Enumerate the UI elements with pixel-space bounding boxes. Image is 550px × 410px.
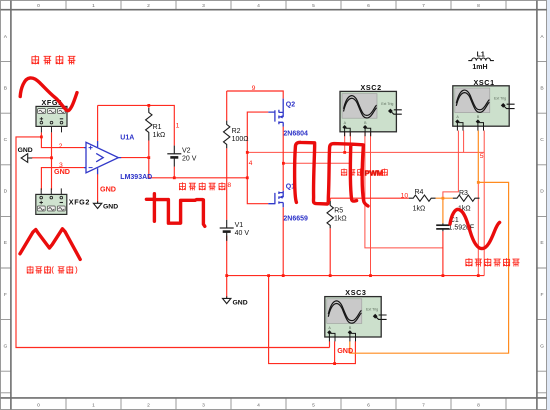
svg-text:2: 2 [147,3,150,9]
svg-text:10: 10 [401,193,409,200]
svg-text:0: 0 [37,3,40,9]
wire XSC1 A+ probe down to R4/R3/C1 node [443,131,459,199]
wire comparator V- pin down to ground [97,174,99,202]
svg-text:R5: R5 [334,208,343,215]
wire between Q2 source and Q1 drain (output node) [282,127,284,191]
wire orange: filtered output loop to XSC3 B+ [350,182,509,353]
resistor R4 [409,189,436,213]
svg-text:PWM: PWM [365,169,384,178]
svg-text:D: D [4,189,8,195]
svg-text:Q2: Q2 [286,102,295,109]
resistor R1 [146,108,166,158]
svg-text:R2: R2 [232,128,241,135]
transistor Q2 2N6804 (P-MOSFET) [268,99,308,138]
function generator XFG1 [36,98,67,132]
svg-text:1kΩ: 1kΩ [334,216,347,223]
wire net 3: XFG2 + output to comparator inverting input [41,168,84,190]
svg-text:9: 9 [252,85,256,92]
svg-text:LM393AD: LM393AD [120,174,152,181]
svg-text:4: 4 [249,160,253,167]
oscilloscope XSC3 [325,288,387,341]
resistor R2 [224,121,249,149]
svg-text:G: G [540,343,544,349]
svg-text:GND: GND [18,147,33,154]
inductor L1 1mH [468,52,494,72]
transistor Q1 2N6659 (N-MOSFET) [268,184,308,223]
svg-text:2: 2 [147,403,150,409]
wire comparator V+ pin up to net 1 rail [97,105,99,141]
svg-text:6: 6 [367,3,370,9]
wire R5 bottom down to ground rail [329,228,331,275]
junction common/GND [50,156,53,159]
scribble: triangle carrier wave [20,229,80,260]
junction Q1 source on rail [282,274,285,277]
wire XSC2 B+ probe down and right to C1 leg [365,132,443,248]
svg-text:XSC3: XSC3 [345,288,366,297]
junction output node / XSC2 A- line [282,162,285,165]
svg-text:R1: R1 [153,124,162,131]
function generator XFG2 (flipped) [36,188,90,214]
wire filter output node down to ground rail [477,182,479,275]
junction V2- on net 8 [173,176,176,179]
junction XSC3 A- on ground branch [333,362,336,365]
annotation: sound waveform text [31,55,75,64]
svg-text:L1: L1 [477,52,485,59]
svg-text:F: F [4,292,7,298]
wire gate node to XSC1/B- horizontal run [247,151,484,153]
wire XSC1 A- probe down to gate line [463,131,465,153]
junction XSC2 B- on rail [369,274,372,277]
ground below comparator [93,201,118,210]
svg-text:Ext Trig: Ext Trig [381,102,393,106]
wire XSC2 A- probe down to output-node line [349,132,351,164]
svg-text:GND: GND [233,300,248,307]
on-page connector GND (arrow) [18,147,33,162]
wire ground rail [227,275,485,277]
wire V1 - down to ground rail and GND [226,236,228,298]
svg-text:40 V: 40 V [235,230,250,237]
svg-text:1kΩ: 1kΩ [153,132,166,139]
svg-text:GND: GND [54,167,70,176]
wire common: XFG1 common to XFG2 common [51,132,53,189]
svg-text:3: 3 [202,403,205,409]
wire R1 top stub [148,105,150,108]
capacitor C1 1.592uF [436,217,474,232]
wire XSC2 B- probe down to ground rail [370,132,372,276]
junction comparator output / R1 [147,156,150,159]
wire net 9: R2 top across to Q2 drain [227,91,284,99]
wire GND connector tail to common [32,157,52,159]
wire R2 bottom down to V1 + (crosses net 8) [226,148,228,220]
battery V1 40V [220,220,250,241]
junction net8 / gate bus [246,176,249,179]
svg-text:100Ω: 100Ω [232,136,249,143]
svg-text:20 V: 20 V [182,156,197,163]
junction R5 bottom on rail [329,274,332,277]
svg-text:B: B [4,85,7,91]
junction XSC2 A+ on gate line [343,151,346,154]
op-amp U1A LM393AD [84,135,152,182]
wire orange: XSC1 B+ probe down [477,131,479,183]
wire R2 top to net 9 corner [226,91,228,121]
svg-text:Ext Trig: Ext Trig [494,97,506,101]
svg-text:XSC1: XSC1 [474,78,495,87]
svg-text:XFG2: XFG2 [69,198,90,207]
svg-text:5: 5 [480,153,484,160]
junction orange R4/R3/C1 node [442,197,445,200]
svg-text:7: 7 [422,3,425,9]
svg-text:GND: GND [337,346,353,355]
svg-text:V2: V2 [182,148,191,155]
svg-text:1: 1 [176,123,180,130]
svg-text:XSC2: XSC2 [361,83,382,92]
svg-text:6: 6 [367,403,370,409]
wire output node to XSC2 A- horizontal run [283,162,350,164]
resistor R5 [327,201,347,228]
annotation: modulated signal text [179,182,225,190]
svg-text:R3: R3 [459,190,468,197]
junction XSC3 branch on rail [267,274,270,277]
annotation: triangle carrier wave text [27,266,77,274]
svg-text:5: 5 [312,3,315,9]
svg-text:R4: R4 [415,189,424,196]
wire XSC3 A- stub down to ground branch [334,341,336,363]
svg-text:8: 8 [227,182,231,189]
svg-text:D: D [540,189,544,195]
svg-text:4: 4 [257,403,260,409]
svg-text:2N6804: 2N6804 [283,131,308,138]
svg-text:0: 0 [37,403,40,409]
svg-text:1: 1 [92,403,95,409]
wire orange: junction down to C1 top [442,198,444,223]
junction C1 on rail [442,274,445,277]
battery V2 20V [167,146,196,167]
wire orange: R4/R3 junction segment [436,197,453,199]
svg-text:C: C [4,137,8,143]
junction R1 top on net1 [147,104,150,107]
svg-text:4: 4 [257,3,260,9]
scribble: amplified PWM wave [295,142,368,206]
svg-text:1mH: 1mH [472,64,487,71]
svg-text:8: 8 [477,403,480,409]
svg-text:C: C [540,137,544,143]
wire net 2: XFG1 + output to comparator non-inverting input [41,132,84,147]
ground below V1 [223,296,248,306]
svg-text:1: 1 [92,3,95,9]
resistor R3 [453,190,480,213]
oscilloscope XSC1 [453,78,515,131]
svg-text:8: 8 [477,3,480,9]
wire net 8: output node down and across to gate bus [149,158,248,178]
svg-text:GND: GND [100,185,116,194]
svg-text:5: 5 [312,403,315,409]
wire XSC1 B- probe down to ground rail [483,131,485,276]
junction gate bus / scope line [246,151,249,154]
junction net2 branch [40,136,43,139]
wire net 2 branch: long run to XSC3 channel A [16,137,330,348]
wire net 10: R5 top across to R4 [330,198,409,201]
wire net 1 rail to V2 + [98,105,175,145]
svg-text:GND: GND [103,204,118,211]
svg-text:U1A: U1A [120,135,134,142]
wire V2 - down to net 8 [173,167,175,178]
annotation: amplified PWM wave text [341,168,388,177]
wire Q1 source down to ground rail [282,207,284,275]
svg-text:1kΩ: 1kΩ [413,206,426,213]
svg-text:V1: V1 [235,222,244,229]
wire ground rail branch down to XSC3 inputs [269,276,356,364]
svg-text:Ext Trig: Ext Trig [366,307,378,311]
svg-text:7: 7 [422,403,425,409]
oscilloscope XSC2 [340,83,402,136]
scribble: sine wave over XFG1 [20,78,77,111]
svg-text:F: F [541,292,544,298]
svg-text:G: G [3,343,7,349]
svg-text:3: 3 [202,3,205,9]
wire gate bus: Q2 gate to Q1 gate [247,112,268,204]
scribble: filtered output sine [450,209,500,248]
wire comparator output to R1 bottom [121,157,149,159]
scribble: modulated square wave [146,194,204,227]
junction filter node drop on rail [477,274,480,277]
wire C1 bottom to ground rail [442,231,444,275]
svg-text:B: B [540,85,543,91]
svg-text:2N6659: 2N6659 [283,216,308,223]
junction V1/GND on rail [225,274,228,277]
svg-text:2: 2 [59,143,63,150]
wire XSC2 A+ probe to gate-bus line [344,132,346,153]
junction orange XSC1 B+ tap [477,181,480,184]
annotation: filtered restored wave text [465,258,519,266]
